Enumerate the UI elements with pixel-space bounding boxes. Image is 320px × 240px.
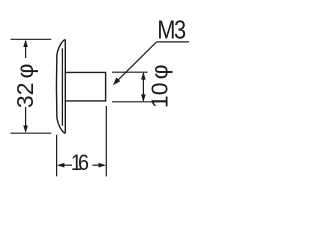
- dim 16 left stub + arrow (left): [64, 164, 72, 166]
- dim 32phi upper arrow (up): [23, 40, 28, 48]
- dim 16 right stub + arrow (right): [93, 164, 100, 166]
- dim 32phi upper dimension line: [25, 42, 27, 59]
- svg-text:M3: M3: [157, 16, 185, 45]
- M3 label: [157, 16, 185, 45]
- svg-text:32φ: 32φ: [12, 64, 38, 109]
- dim 10phi label: [146, 64, 172, 108]
- dim 16 right extension line: [105, 106, 107, 176]
- svg-text:10φ: 10φ: [146, 64, 172, 108]
- knob head dome arc: [56, 40, 65, 134]
- dim 32phi top extension line: [11, 38, 52, 40]
- M3 leader underline: [157, 41, 190, 43]
- M3 leader diagonal: [117, 42, 157, 81]
- knob head back face line: [64, 40, 66, 134]
- knob head rim edge line: [61, 48, 63, 126]
- dim 10phi upper arrow (up): [141, 72, 146, 80]
- dim 10phi dimension line: [142, 73, 144, 101]
- dim 16 left extension line: [56, 135, 58, 177]
- dim 10phi lower arrow (down): [141, 94, 146, 102]
- stem (threaded stud): [65, 72, 105, 101]
- dim 10phi bottom extension line: [112, 101, 157, 103]
- dim 32phi lower arrow (down): [23, 126, 28, 134]
- M3 leader arrowhead: [113, 78, 120, 86]
- dim 10phi top extension line: [112, 71, 148, 73]
- dim 32phi label: [12, 64, 38, 109]
- dim 16 label: [71, 151, 88, 175]
- dim 32phi bottom extension line: [11, 132, 52, 134]
- dim 32phi lower dimension line: [25, 107, 27, 132]
